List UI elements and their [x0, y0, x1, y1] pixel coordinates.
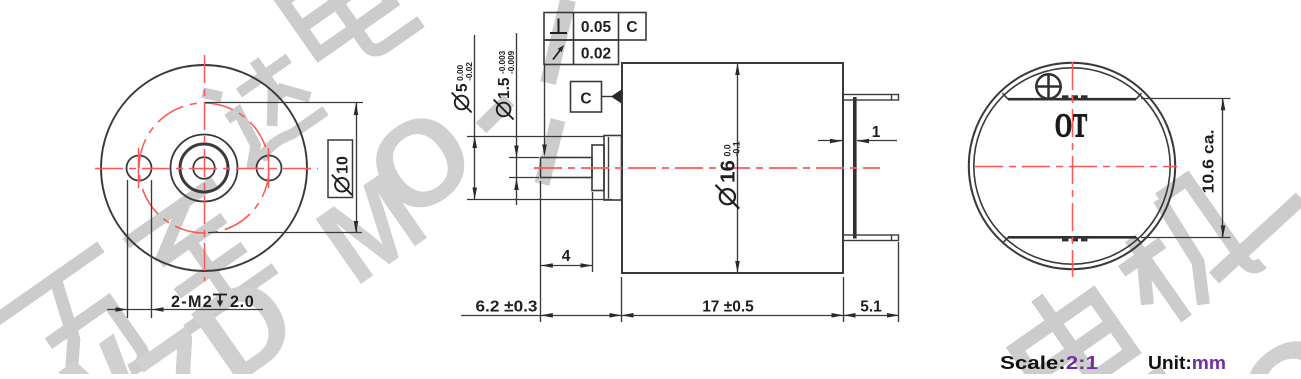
svg-text:Scale:2:1: Scale:2:1	[1000, 352, 1098, 373]
svg-text:0.05: 0.05	[581, 19, 612, 36]
svg-text:-0.003: -0.003	[498, 50, 507, 74]
svg-text:1.5: 1.5	[496, 77, 513, 99]
svg-text:C: C	[626, 19, 637, 36]
svg-text:C: C	[580, 91, 591, 108]
svg-text:16: 16	[717, 160, 740, 183]
svg-text:6.2 ±0.3: 6.2 ±0.3	[476, 299, 538, 316]
svg-text:10: 10	[335, 156, 352, 174]
svg-text:10.6 ca.: 10.6 ca.	[1201, 130, 1218, 194]
svg-text:5.1: 5.1	[860, 299, 882, 316]
svg-text:-0.009: -0.009	[507, 50, 516, 74]
svg-text:17 ±0.5: 17 ±0.5	[702, 299, 754, 316]
svg-text:-0.02: -0.02	[465, 62, 474, 81]
svg-text:0.00: 0.00	[456, 64, 465, 80]
svg-text:0.02: 0.02	[581, 46, 611, 63]
svg-text:OT: OT	[1055, 107, 1087, 145]
svg-text:1: 1	[872, 124, 881, 141]
svg-text:-0.1: -0.1	[731, 141, 741, 156]
svg-text:2-M2: 2-M2	[171, 293, 213, 311]
svg-text:5: 5	[454, 83, 471, 92]
svg-text:2.0: 2.0	[230, 293, 254, 311]
svg-text:Unit:mm: Unit:mm	[1148, 352, 1226, 373]
svg-text:4: 4	[562, 248, 571, 265]
